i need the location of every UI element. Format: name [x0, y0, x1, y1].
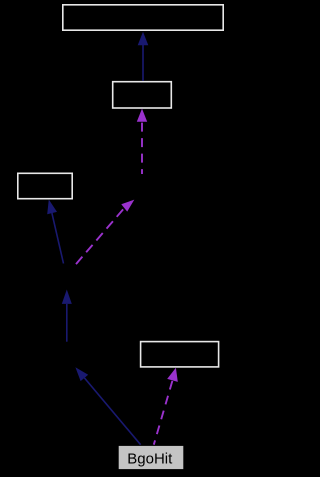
class node A (top, unfilled box) [63, 5, 223, 30]
inheritance arrow BgoHit to mid (solid blue, diagonal) [75, 367, 140, 445]
inheritance arrow vertical mid (solid blue) [62, 290, 72, 342]
class node D (right lower, unfilled box) [141, 342, 219, 367]
class node BgoHit (grey filled, current class) [119, 446, 184, 469]
inheritance arrow junction to C (solid blue) [47, 200, 63, 264]
svg-text:BgoHit: BgoHit [127, 450, 173, 467]
usage arrow into B (dashed purple, vertical segment) [137, 109, 147, 174]
usage arrow BgoHit to D (dashed purple, diagonal) [154, 368, 178, 445]
usage arrow from junction toward B (dashed purple, diagonal segment) [76, 200, 134, 265]
class node C (left, unfilled box) [18, 173, 72, 198]
class node B (second row, unfilled box) [113, 82, 172, 108]
inheritance arrow B to A (solid blue) [138, 32, 149, 81]
